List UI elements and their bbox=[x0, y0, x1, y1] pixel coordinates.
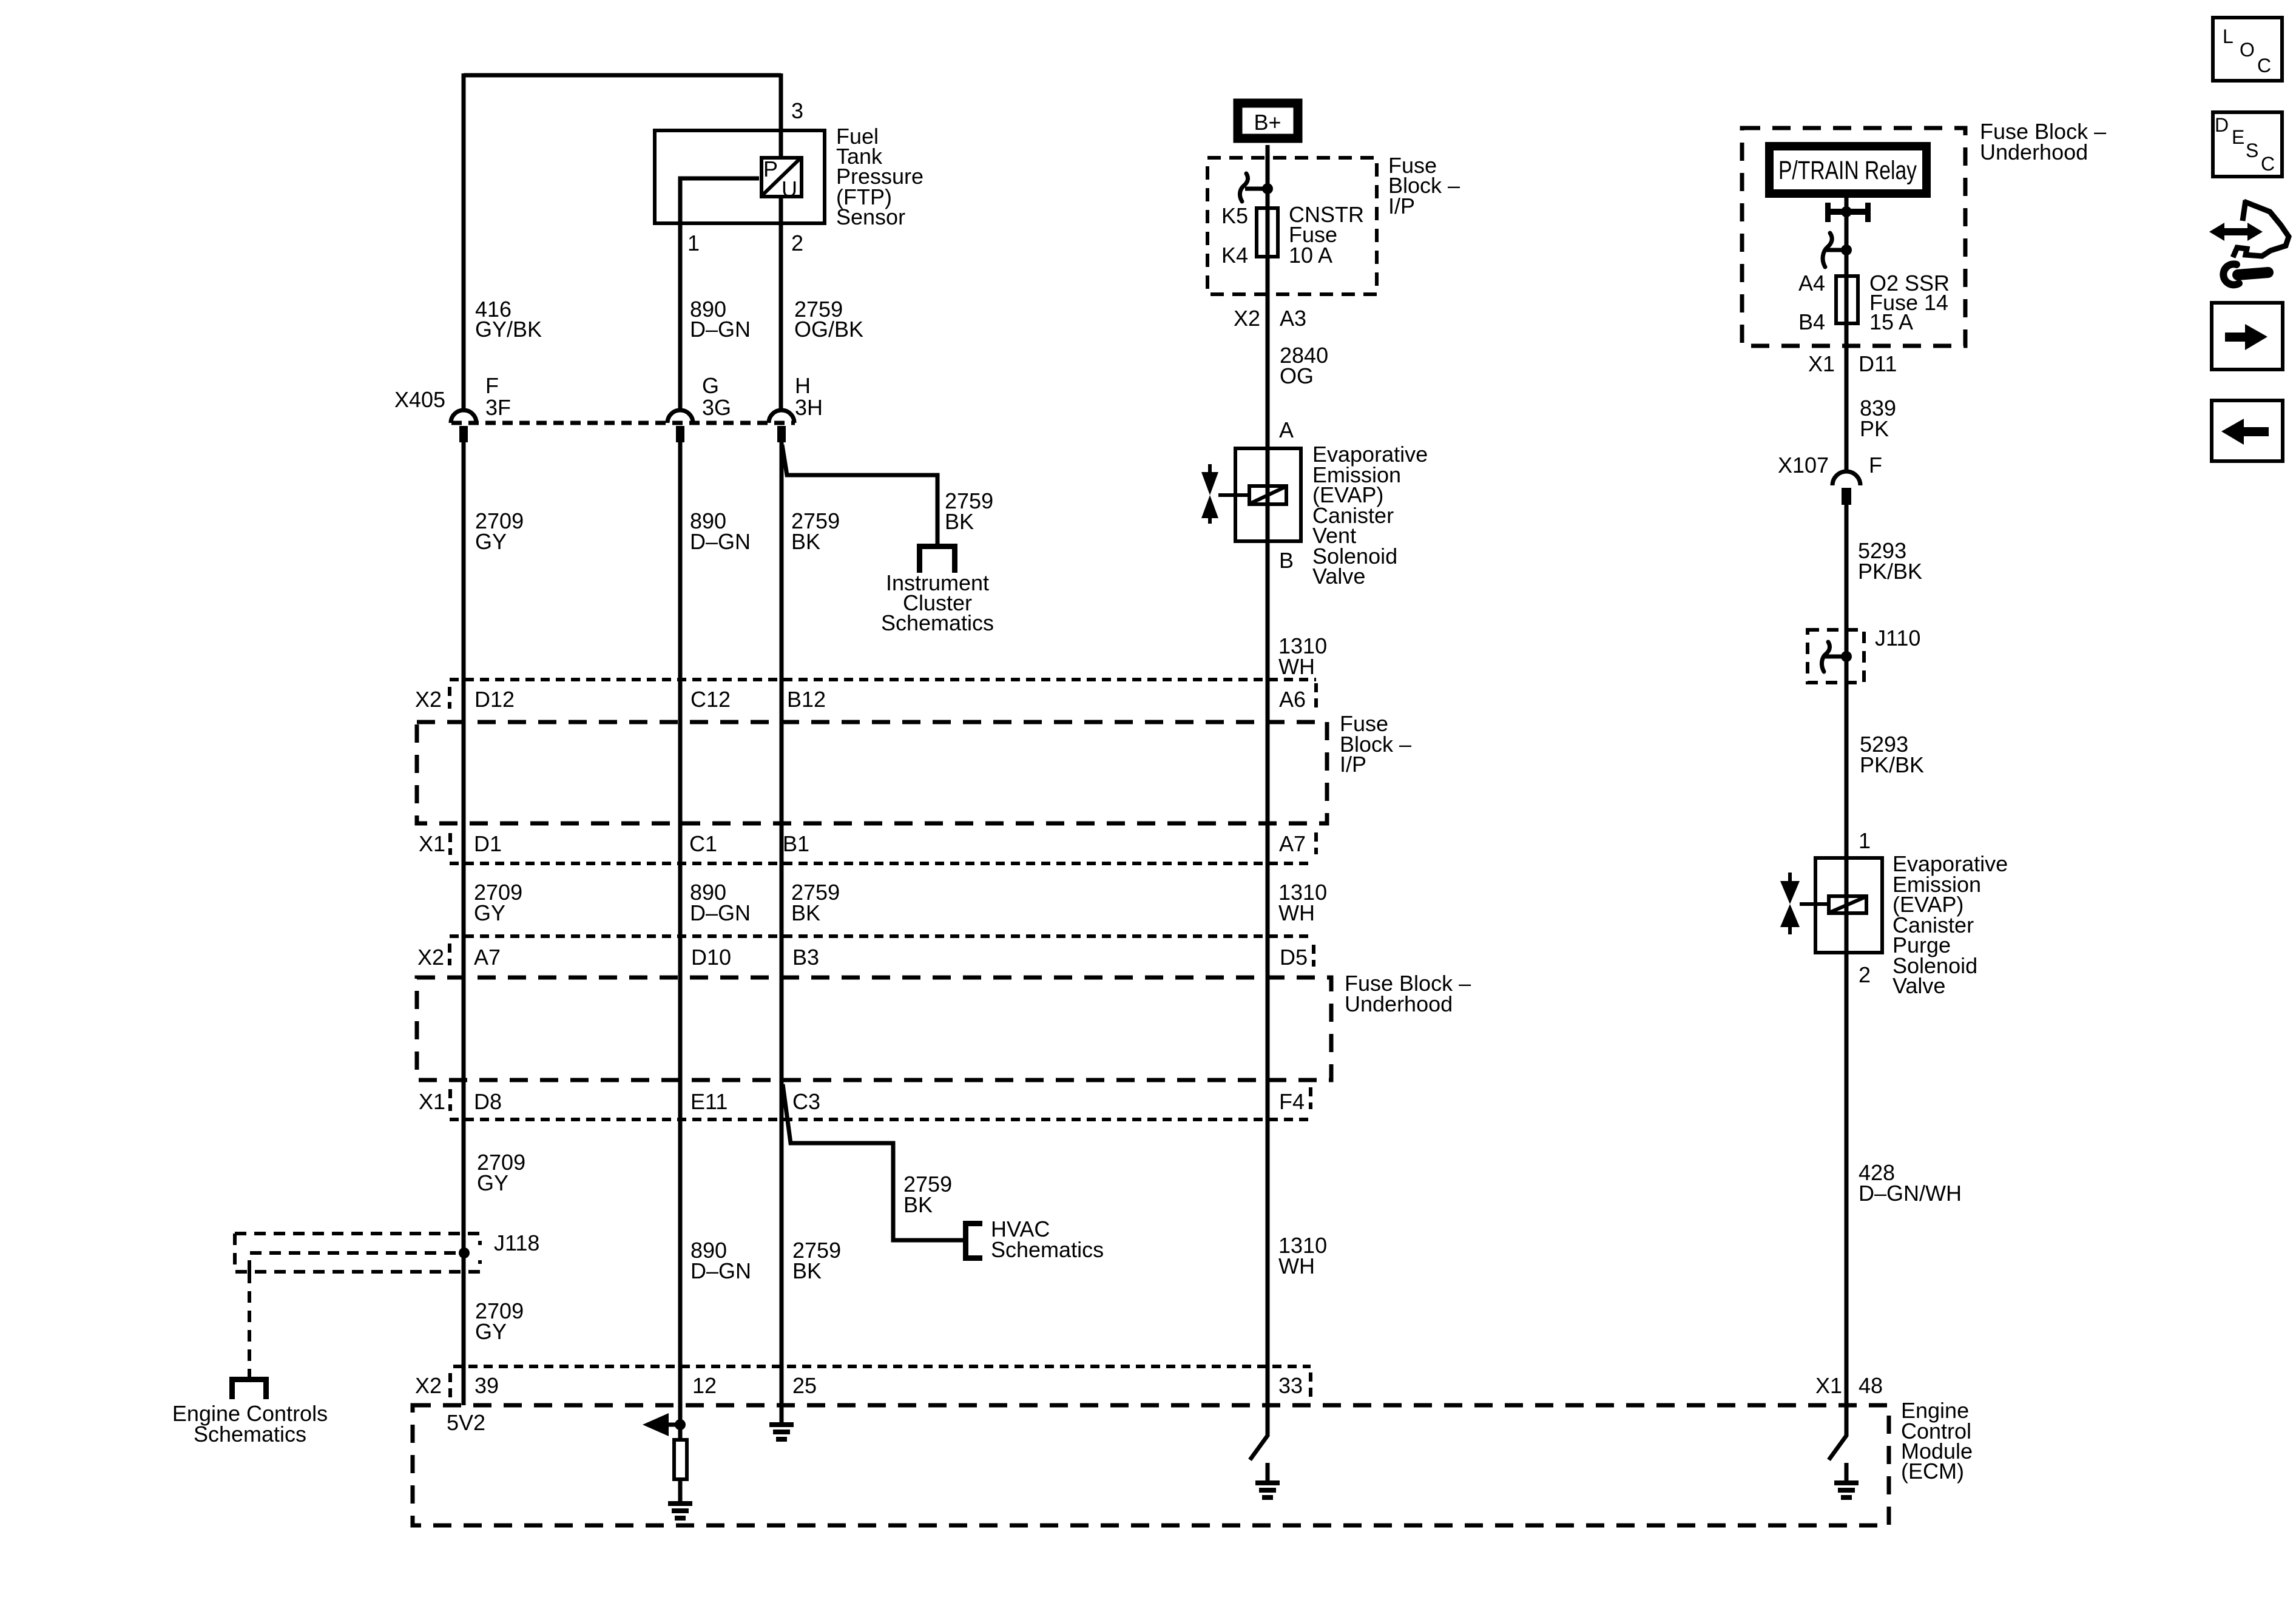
svg-text:P: P bbox=[763, 157, 778, 181]
connector row X1 D1 dotted line bbox=[450, 862, 1314, 865]
svg-text:H: H bbox=[795, 373, 811, 398]
label FTP pin 1 bbox=[687, 231, 700, 255]
svg-text:5V2: 5V2 bbox=[447, 1410, 485, 1435]
svg-text:BK: BK bbox=[792, 1258, 822, 1283]
label pin A6 bbox=[1279, 687, 1306, 712]
label J118 bbox=[494, 1230, 539, 1255]
svg-text:Schematics: Schematics bbox=[991, 1237, 1104, 1262]
wire 2759 BK branch to instrument cluster bbox=[782, 445, 937, 544]
wire 428 D-GN/WH purge to ECM bbox=[1845, 954, 1849, 1405]
svg-text:A4: A4 bbox=[1798, 271, 1825, 295]
label pin C12 bbox=[690, 687, 731, 712]
label wire 2759 BK branch lower bbox=[903, 1172, 952, 1217]
label Fuse Block - I/P upper bbox=[1388, 153, 1460, 218]
page icon back arrow box bbox=[2212, 400, 2283, 461]
svg-text:A: A bbox=[1279, 417, 1294, 442]
svg-text:X1: X1 bbox=[419, 831, 445, 856]
svg-text:B4: B4 bbox=[1798, 309, 1825, 334]
svg-text:I/P: I/P bbox=[1340, 752, 1366, 777]
svg-text:X1: X1 bbox=[1815, 1373, 1842, 1398]
svg-text:Schematics: Schematics bbox=[194, 1422, 306, 1447]
connector row X2 A7 dotted line bbox=[450, 934, 1314, 938]
connector row X1 tick upper bbox=[448, 833, 452, 855]
wire 1310 WH vent to ECM bbox=[1266, 543, 1270, 1405]
svg-text:U: U bbox=[782, 177, 797, 201]
svg-text:10 A: 10 A bbox=[1289, 243, 1332, 268]
off-page connector to HVAC schematics bbox=[963, 1221, 982, 1261]
label Fuse Block - Underhood upper bbox=[1980, 119, 2106, 164]
svg-text:F: F bbox=[485, 373, 499, 398]
connector row X2 tick row5 bbox=[448, 1373, 452, 1397]
label pin A7 right bbox=[1279, 831, 1306, 856]
connector row F4 tick bbox=[1309, 1087, 1312, 1109]
label Fuel Tank Pressure (FTP) Sensor bbox=[836, 124, 923, 229]
svg-text:PK/BK: PK/BK bbox=[1860, 752, 1924, 777]
label Instrument Cluster Schematics bbox=[881, 570, 994, 635]
svg-text:1: 1 bbox=[1859, 828, 1871, 853]
svg-text:D12: D12 bbox=[474, 687, 515, 712]
fuse block underhood upper dashed box bbox=[1742, 128, 1965, 346]
connector X107 pin bbox=[1842, 488, 1851, 505]
label pin G 3G bbox=[702, 373, 731, 420]
svg-text:Sensor: Sensor bbox=[836, 204, 905, 229]
label Engine Control Module (ECM) bbox=[1901, 1398, 1973, 1484]
svg-text:3F: 3F bbox=[485, 395, 511, 420]
label pin 25 bbox=[792, 1373, 817, 1398]
svg-text:S: S bbox=[2246, 140, 2258, 161]
ground under resistor bbox=[668, 1501, 692, 1521]
label wire 2840 OG bbox=[1280, 343, 1328, 388]
svg-text:D: D bbox=[2215, 114, 2229, 136]
svg-text:K4: K4 bbox=[1221, 243, 1248, 268]
svg-text:L: L bbox=[2223, 25, 2234, 47]
wire 2759 BK vertical column 3 bbox=[780, 442, 784, 1422]
svg-text:I/P: I/P bbox=[1388, 194, 1415, 218]
label O2 SSR Fuse 14 15 A bbox=[1869, 271, 1950, 334]
label pin D10 bbox=[691, 945, 731, 970]
connector X405 socket arc G bbox=[667, 410, 693, 423]
svg-text:G: G bbox=[702, 373, 719, 398]
svg-text:K5: K5 bbox=[1221, 203, 1248, 228]
svg-text:B1: B1 bbox=[783, 831, 809, 856]
label pin A7 bbox=[474, 945, 501, 970]
svg-text:F: F bbox=[1869, 453, 1882, 478]
label X2 row3 bbox=[417, 945, 444, 970]
connector X405 socket arc H bbox=[769, 410, 794, 423]
svg-text:A7: A7 bbox=[1279, 831, 1306, 856]
svg-text:GY/BK: GY/BK bbox=[475, 317, 542, 342]
label X2 row1 bbox=[415, 687, 442, 712]
EVAP canister vent solenoid valve box bbox=[1235, 448, 1301, 541]
label pin H 3H bbox=[795, 373, 823, 420]
label pin D5 bbox=[1280, 945, 1308, 970]
label X2 A3 bbox=[1234, 306, 1306, 331]
svg-text:X2: X2 bbox=[1234, 306, 1260, 331]
svg-text:(ECM): (ECM) bbox=[1901, 1459, 1964, 1484]
label pin B1 bbox=[783, 831, 809, 856]
label connector X405 bbox=[394, 387, 445, 412]
label pin C1 bbox=[689, 831, 717, 856]
svg-text:X1: X1 bbox=[419, 1089, 445, 1114]
wire 2759 OG/BK pin 2 below P/U bbox=[779, 198, 783, 410]
wire 416 GY/BK left vertical bbox=[462, 73, 466, 410]
svg-text:D1: D1 bbox=[474, 831, 502, 856]
svg-text:PK: PK bbox=[1860, 416, 1889, 441]
off-page connector to engine controls schematics bbox=[229, 1377, 269, 1399]
svg-text:3H: 3H bbox=[795, 395, 823, 420]
page icon wrench bbox=[2223, 264, 2268, 285]
splice J110 dashed box bbox=[1808, 630, 1864, 683]
connector X405 pin F bbox=[459, 426, 468, 442]
svg-text:BK: BK bbox=[945, 509, 974, 534]
label Fuse Block - I/P lower bbox=[1340, 711, 1411, 777]
label wire 2709 GY upper bbox=[475, 508, 524, 554]
connector row X2 39 dotted line bbox=[453, 1365, 1311, 1368]
label wire 5293 PK/BK lower bbox=[1860, 732, 1924, 777]
label wire 2709 GY row5 bbox=[475, 1298, 524, 1344]
svg-text:GY: GY bbox=[475, 529, 507, 554]
label X1 D11 bbox=[1808, 351, 1897, 376]
label J110 bbox=[1875, 626, 1920, 650]
page icon DESC box bbox=[2213, 112, 2282, 177]
label pin D8 bbox=[474, 1089, 502, 1114]
engine control module ECM dashed box bbox=[413, 1405, 1889, 1525]
ECM internal switch pin 48 bbox=[1829, 1405, 1846, 1480]
svg-text:2: 2 bbox=[791, 231, 803, 255]
svg-text:BK: BK bbox=[791, 900, 820, 925]
label wire 2709 GY row2 bbox=[474, 880, 522, 925]
svg-text:D–GN: D–GN bbox=[690, 900, 751, 925]
solenoid coil symbol purge bbox=[1813, 896, 1866, 913]
label wire 890 D-GN mid upper bbox=[690, 508, 751, 554]
label HVAC Schematics bbox=[991, 1217, 1104, 1262]
svg-text:J110: J110 bbox=[1875, 626, 1920, 650]
label pin B vent bbox=[1279, 548, 1294, 573]
svg-text:2: 2 bbox=[1859, 962, 1871, 987]
label X1 ECM right bbox=[1815, 1373, 1842, 1398]
label B4 bbox=[1798, 309, 1825, 334]
page icon LOC box bbox=[2213, 18, 2282, 81]
ECM internal switch pin 33 bbox=[1250, 1405, 1268, 1480]
off-page connector to instrument cluster schematics bbox=[917, 544, 957, 573]
label wire 2759 BK row4 bbox=[792, 1238, 841, 1283]
label FTP pin 3 bbox=[791, 98, 803, 123]
fuse block I/P upper dashed box bbox=[1207, 158, 1377, 294]
svg-text:15 A: 15 A bbox=[1869, 309, 1913, 334]
ECM internal 5V reference arrow bbox=[643, 1413, 680, 1436]
label wire 890 D-GN row4 bbox=[690, 1238, 751, 1283]
connector row A7 tick bbox=[1314, 832, 1318, 854]
fuse block underhood lower dashed box bbox=[417, 977, 1331, 1080]
page icon forward arrow box bbox=[2212, 303, 2283, 370]
svg-text:GY: GY bbox=[474, 900, 505, 925]
junction dot J118 bbox=[459, 1247, 470, 1258]
label pin D12 bbox=[474, 687, 515, 712]
svg-text:3: 3 bbox=[791, 98, 803, 123]
svg-text:25: 25 bbox=[792, 1373, 817, 1398]
svg-text:Valve: Valve bbox=[1312, 564, 1365, 589]
connector X405 socket arc F bbox=[451, 410, 476, 423]
svg-text:X107: X107 bbox=[1778, 453, 1829, 478]
connector row X2 tick lower bbox=[448, 944, 451, 965]
dashed wire to engine controls schematics bbox=[248, 1272, 251, 1377]
svg-text:WH: WH bbox=[1278, 654, 1315, 679]
label 5V2 bbox=[447, 1410, 485, 1435]
svg-text:WH: WH bbox=[1278, 1254, 1315, 1278]
svg-text:D8: D8 bbox=[474, 1089, 502, 1114]
svg-text:A6: A6 bbox=[1279, 687, 1306, 712]
svg-text:D11: D11 bbox=[1859, 351, 1897, 376]
svg-text:3G: 3G bbox=[702, 395, 731, 420]
svg-text:PK/BK: PK/BK bbox=[1858, 559, 1922, 584]
label pin D1 bbox=[474, 831, 502, 856]
connector X405 pin H bbox=[777, 426, 786, 442]
svg-text:E11: E11 bbox=[690, 1089, 728, 1114]
wire 2759 BK branch to HVAC bbox=[783, 1084, 963, 1240]
svg-text:C3: C3 bbox=[792, 1089, 820, 1114]
label pin A vent bbox=[1279, 417, 1294, 442]
label pin 2 purge bbox=[1859, 962, 1871, 987]
label X2 row5 bbox=[415, 1373, 442, 1398]
junction dot A4 bbox=[1841, 245, 1852, 255]
page icon harness double arrow bbox=[2209, 223, 2263, 241]
wire 839 PK above X107 bbox=[1845, 348, 1849, 472]
svg-text:A7: A7 bbox=[474, 945, 501, 970]
svg-text:X2: X2 bbox=[417, 945, 444, 970]
label Fuse Block - Underhood lower bbox=[1345, 971, 1471, 1016]
wire 890 D-GN from P/U left side, pin 1 bbox=[680, 178, 759, 410]
label wire 1310 WH row2 bbox=[1278, 880, 1327, 925]
svg-text:C1: C1 bbox=[689, 831, 717, 856]
connector row X2 tick bbox=[448, 687, 451, 709]
label pin C3 bbox=[792, 1089, 820, 1114]
page icon harness outline bbox=[2233, 200, 2289, 257]
label pin F 3F bbox=[485, 373, 511, 420]
P/U transducer symbol inside FTP sensor bbox=[761, 157, 802, 201]
svg-text:48: 48 bbox=[1859, 1373, 1883, 1398]
label connector X107 and pin F bbox=[1778, 453, 1882, 478]
svg-text:D–GN/WH: D–GN/WH bbox=[1859, 1181, 1962, 1206]
wire 2759 OG/BK pin3 vertical into FTP sensor bbox=[779, 73, 783, 157]
label wire 5293 PK/BK upper bbox=[1858, 538, 1922, 584]
svg-text:BK: BK bbox=[791, 529, 820, 554]
svg-text:D–GN: D–GN bbox=[690, 529, 751, 554]
label wire 2709 GY row4 bbox=[477, 1150, 525, 1195]
label wire 2759 BK row2 bbox=[791, 880, 840, 925]
svg-text:X405: X405 bbox=[394, 387, 445, 412]
svg-text:C12: C12 bbox=[690, 687, 731, 712]
ground at pin 25 bbox=[769, 1422, 794, 1442]
label FTP pin 2 bbox=[791, 231, 803, 255]
svg-text:OG: OG bbox=[1280, 363, 1314, 388]
connector row A6 tick bbox=[1314, 683, 1318, 707]
label pin B3 bbox=[792, 945, 819, 970]
svg-text:O: O bbox=[2240, 39, 2255, 61]
svg-text:D–GN: D–GN bbox=[690, 317, 751, 342]
fuel tank pressure sensor U1 box bbox=[655, 130, 825, 223]
splice J118 dashed channel bbox=[235, 1234, 480, 1272]
solenoid coil symbol vent bbox=[1233, 486, 1286, 504]
label wire 2759 BK mid upper bbox=[791, 508, 840, 554]
svg-text:B3: B3 bbox=[792, 945, 819, 970]
label wire 890 D-GN upper bbox=[690, 297, 751, 342]
svg-text:WH: WH bbox=[1278, 900, 1315, 925]
junction dot relay terminal bbox=[1841, 206, 1852, 217]
label wire 416 GY/BK bbox=[475, 297, 542, 342]
svg-text:C: C bbox=[2257, 55, 2271, 76]
wire 2709 GY vertical column 1 bbox=[462, 442, 466, 1405]
connector row X1 D8 dotted line bbox=[450, 1118, 1311, 1121]
svg-text:B12: B12 bbox=[787, 687, 826, 712]
label wire 890 D-GN row2 bbox=[690, 880, 751, 925]
label wire 839 PK bbox=[1860, 396, 1896, 441]
svg-text:E: E bbox=[2232, 126, 2244, 148]
label pin 33 bbox=[1278, 1373, 1303, 1398]
connector row D5 tick bbox=[1312, 945, 1315, 967]
junction dot K5 bbox=[1262, 183, 1273, 194]
label pin F4 bbox=[1279, 1089, 1305, 1114]
connector X405 pin G bbox=[676, 426, 684, 442]
junction dot at pin 12 bbox=[675, 1419, 686, 1430]
valve symbol vent bbox=[1201, 464, 1233, 524]
connector X405 dashed line bbox=[451, 421, 795, 425]
bus hook at A4 bbox=[1823, 233, 1846, 267]
svg-text:39: 39 bbox=[474, 1373, 499, 1398]
svg-text:GY: GY bbox=[475, 1319, 507, 1344]
fuse O2 SSR body bbox=[1836, 276, 1858, 323]
svg-text:BK: BK bbox=[903, 1192, 933, 1217]
svg-text:GY: GY bbox=[477, 1170, 508, 1195]
relay terminal bracket bbox=[1825, 203, 1871, 222]
svg-text:C: C bbox=[2261, 153, 2275, 175]
label pin 48 bbox=[1859, 1373, 1883, 1398]
label EVAP canister purge solenoid valve bbox=[1893, 851, 2008, 998]
junction dot J110 bbox=[1841, 651, 1852, 662]
svg-text:X2: X2 bbox=[415, 687, 442, 712]
label CNSTR Fuse 10 A bbox=[1289, 202, 1364, 268]
fuse block I/P lower dashed box bbox=[417, 722, 1327, 823]
label pin 39 bbox=[474, 1373, 499, 1398]
svg-text:P/TRAIN Relay: P/TRAIN Relay bbox=[1778, 156, 1917, 185]
svg-text:F4: F4 bbox=[1279, 1089, 1305, 1114]
connector row X2 D12 dotted line bbox=[450, 678, 1316, 681]
label Engine Controls Schematics bbox=[172, 1401, 328, 1447]
wire 5293 PK/BK below X107 bbox=[1845, 505, 1849, 856]
svg-text:Valve: Valve bbox=[1893, 973, 1945, 998]
label X1 row2 bbox=[419, 831, 445, 856]
connector row X1 tick row4 bbox=[448, 1089, 452, 1111]
label pin 12 bbox=[692, 1373, 717, 1398]
svg-text:D–GN: D–GN bbox=[690, 1258, 751, 1283]
svg-text:J118: J118 bbox=[494, 1230, 539, 1255]
svg-text:1: 1 bbox=[687, 231, 700, 255]
label wire 1310 WH lower bbox=[1278, 1233, 1327, 1278]
EVAP canister purge solenoid valve box bbox=[1815, 858, 1882, 953]
svg-text:12: 12 bbox=[692, 1373, 717, 1398]
bus hook at K5 bbox=[1240, 174, 1268, 201]
label EVAP canister vent solenoid valve bbox=[1312, 442, 1428, 589]
svg-text:B: B bbox=[1279, 548, 1294, 573]
label wire 2759 OG/BK bbox=[794, 297, 863, 342]
svg-text:Underhood: Underhood bbox=[1980, 140, 2088, 164]
svg-text:OG/BK: OG/BK bbox=[794, 317, 863, 342]
label wire 1310 WH upper bbox=[1278, 633, 1327, 679]
svg-text:Underhood: Underhood bbox=[1345, 991, 1453, 1016]
svg-text:D5: D5 bbox=[1280, 945, 1308, 970]
ground at pin 33 bbox=[1255, 1480, 1280, 1500]
svg-text:X2: X2 bbox=[415, 1373, 442, 1398]
ground at pin 48 bbox=[1834, 1480, 1859, 1500]
wire 2840 OG from B+ through fuse bbox=[1266, 145, 1270, 446]
svg-text:D10: D10 bbox=[691, 945, 731, 970]
label K4 bbox=[1221, 243, 1248, 268]
label pin 1 purge bbox=[1859, 828, 1871, 853]
svg-text:A3: A3 bbox=[1280, 306, 1306, 331]
label X1 row4 bbox=[419, 1089, 445, 1114]
label wire 2759 BK branch upper bbox=[945, 488, 993, 534]
valve symbol purge bbox=[1780, 873, 1813, 934]
wire through vent solenoid bbox=[1266, 446, 1270, 543]
svg-text:X1: X1 bbox=[1808, 351, 1835, 376]
svg-text:Schematics: Schematics bbox=[881, 610, 994, 635]
svg-text:33: 33 bbox=[1278, 1373, 1303, 1398]
P/TRAIN relay box bbox=[1769, 146, 1926, 194]
fuse CNSTR 10A body bbox=[1257, 208, 1278, 257]
wire top jumper 416 GY/BK from pin F loop to FTP pin 3 bbox=[464, 73, 781, 78]
connector X107 socket arc bbox=[1832, 471, 1860, 485]
label pin E11 bbox=[690, 1089, 728, 1114]
connector row 33 tick bbox=[1309, 1372, 1312, 1397]
wire 890 D-GN vertical column 2 bbox=[678, 442, 683, 1424]
label A4 bbox=[1798, 271, 1825, 295]
label wire 428 D-GN/WH bbox=[1859, 1160, 1962, 1206]
bus hook at J110 bbox=[1822, 642, 1846, 672]
label K5 bbox=[1221, 203, 1248, 228]
svg-text:B+: B+ bbox=[1254, 110, 1281, 135]
wire from relay through fuse block bbox=[1845, 198, 1849, 348]
battery feed B+ box bbox=[1238, 103, 1298, 138]
label pin B12 bbox=[787, 687, 826, 712]
ECM internal resistor bbox=[674, 1425, 687, 1501]
wire through purge solenoid bbox=[1845, 856, 1849, 954]
